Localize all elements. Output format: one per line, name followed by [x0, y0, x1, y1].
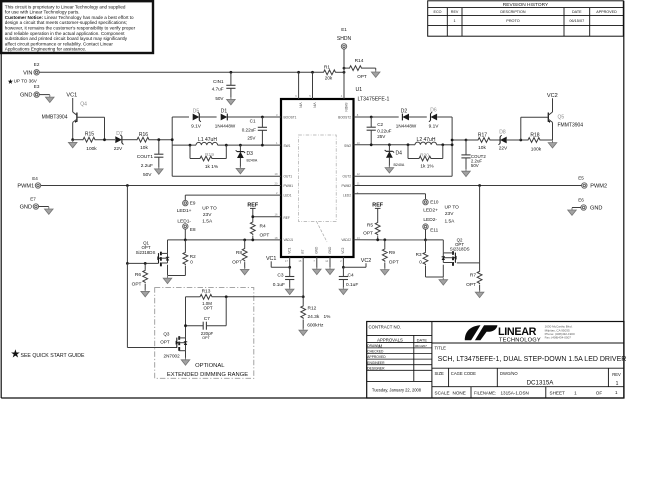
svg-text:R12: R12 [308, 306, 317, 312]
svg-text:D1: D1 [221, 108, 228, 114]
svg-text:06/14/07: 06/14/07 [415, 344, 427, 348]
svg-text:R17: R17 [478, 132, 487, 138]
svg-text:OPT: OPT [203, 306, 212, 311]
svg-text:23V: 23V [203, 212, 212, 218]
svg-text:SEE QUICK START GUIDE: SEE QUICK START GUIDE [21, 353, 86, 359]
svg-text:Q5: Q5 [558, 115, 565, 121]
svg-text:SCALE: SCALE [435, 391, 450, 396]
svg-text:C2: C2 [377, 122, 383, 127]
svg-text:REV: REV [451, 10, 459, 14]
svg-text:OPTIONAL: OPTIONAL [195, 363, 225, 369]
svg-text:1k 1%: 1k 1% [205, 164, 219, 170]
svg-text:E10: E10 [430, 200, 439, 205]
svg-text:GND: GND [315, 246, 319, 254]
svg-text:E7: E7 [30, 196, 36, 201]
svg-text:LED1+: LED1+ [177, 208, 192, 214]
svg-text:E4: E4 [32, 176, 38, 181]
svg-text:ENGINEER: ENGINEER [367, 361, 385, 365]
svg-text:CONTRACT NO.: CONTRACT NO. [369, 324, 402, 329]
svg-text:UP TO 36V: UP TO 36V [14, 78, 38, 83]
svg-text:VC1: VC1 [288, 247, 292, 253]
svg-text:R15: R15 [85, 131, 94, 137]
svg-text:C4: C4 [348, 272, 354, 278]
svg-text:UP TO: UP TO [445, 204, 460, 210]
svg-text:PROTO: PROTO [506, 19, 519, 23]
svg-text:PWM2: PWM2 [590, 184, 607, 190]
svg-text:Customer Notice: Linear Techno: Customer Notice: Linear Technology has m… [5, 15, 134, 20]
svg-text:PWM1: PWM1 [284, 184, 294, 188]
svg-text:LED1: LED1 [284, 193, 292, 197]
svg-text:affect circuit performance or: affect circuit performance or reliabilit… [5, 41, 114, 46]
svg-text:substitution and printed circu: substitution and printed circuit board l… [5, 36, 128, 41]
svg-text:GND: GND [590, 206, 602, 212]
svg-text:OPT: OPT [363, 231, 373, 237]
svg-text:22V: 22V [114, 146, 123, 152]
svg-text:0: 0 [190, 260, 193, 265]
svg-text:LED2+: LED2+ [423, 208, 438, 214]
svg-text:R14: R14 [355, 58, 364, 64]
svg-text:2.2uF: 2.2uF [141, 163, 153, 169]
svg-text:APPROVED: APPROVED [367, 355, 386, 359]
svg-text:OPT: OPT [232, 259, 242, 265]
svg-text:R6: R6 [135, 272, 141, 278]
svg-text:REV: REV [612, 372, 621, 377]
svg-text:GND: GND [20, 205, 32, 211]
svg-text:B240A: B240A [247, 159, 258, 163]
svg-text:D8: D8 [499, 130, 506, 136]
svg-text:APPROVED: APPROVED [596, 10, 617, 14]
svg-text:50V: 50V [215, 96, 224, 101]
svg-text:E5: E5 [578, 176, 584, 181]
svg-text:R8: R8 [236, 250, 242, 256]
svg-text:E1: E1 [341, 27, 347, 32]
svg-text:VC2: VC2 [547, 93, 558, 99]
svg-text:ECO: ECO [434, 10, 442, 14]
svg-text:OF: OF [596, 391, 603, 396]
svg-text:OPT: OPT [202, 336, 210, 340]
svg-text:NONE: NONE [453, 391, 466, 396]
svg-text:D6: D6 [430, 107, 437, 113]
svg-text:E3: E3 [34, 84, 40, 89]
svg-text:22V: 22V [499, 145, 508, 151]
svg-text:L1 47uH: L1 47uH [198, 137, 217, 143]
svg-text:1315A-1.DSN: 1315A-1.DSN [501, 391, 529, 396]
svg-text:E9: E9 [190, 201, 196, 206]
svg-text:design a circuit that meets cu: design a circuit that meets customer-sup… [5, 20, 127, 25]
svg-text:FILENAME:: FILENAME: [474, 391, 496, 396]
svg-text:U1: U1 [356, 87, 363, 93]
svg-text:L2 47uH: L2 47uH [417, 137, 436, 143]
svg-text:VADJ1: VADJ1 [284, 238, 294, 242]
svg-text:VC1: VC1 [66, 93, 77, 99]
svg-text:VIN: VIN [23, 70, 32, 76]
svg-text:0: 0 [419, 259, 422, 264]
svg-text:20k: 20k [325, 76, 333, 81]
svg-text:23V: 23V [445, 211, 454, 217]
svg-text:R16: R16 [139, 132, 148, 138]
svg-text:1: 1 [454, 19, 456, 23]
svg-text:14: 14 [325, 259, 328, 263]
svg-text:9.1V: 9.1V [429, 123, 440, 129]
svg-text:PWM1: PWM1 [17, 184, 34, 190]
svg-text:E6: E6 [578, 197, 584, 202]
svg-text:10: 10 [357, 141, 360, 145]
svg-text:SIZE: SIZE [435, 371, 445, 376]
svg-text:B240A: B240A [394, 163, 405, 167]
svg-text:9.1V: 9.1V [191, 123, 202, 129]
svg-text:This circuit is proprietary to: This circuit is proprietary to Linear Te… [5, 4, 126, 9]
svg-text:D4: D4 [396, 151, 403, 157]
svg-text:1.5A: 1.5A [202, 218, 213, 224]
svg-text:Q4: Q4 [80, 101, 87, 107]
svg-text:4.7uF: 4.7uF [212, 86, 224, 91]
svg-text:SHDN: SHDN [337, 36, 352, 42]
svg-text:E2: E2 [34, 62, 40, 67]
svg-text:DESIGNER: DESIGNER [367, 366, 385, 370]
svg-text:DATE: DATE [572, 10, 582, 14]
svg-text:Si2318DS: Si2318DS [136, 250, 156, 255]
svg-text:SW1: SW1 [284, 144, 291, 148]
svg-text:2N7002: 2N7002 [164, 353, 181, 358]
svg-text:20: 20 [275, 181, 278, 185]
svg-text:C1: C1 [250, 118, 256, 123]
svg-text:Si2318DS: Si2318DS [450, 247, 470, 252]
svg-text:100k: 100k [531, 146, 542, 152]
svg-text:VC1: VC1 [266, 256, 277, 262]
svg-text:VC2: VC2 [361, 258, 372, 264]
svg-text:C7: C7 [204, 316, 210, 322]
svg-text:1%: 1% [324, 314, 332, 320]
svg-text:Tuesday, January 22, 2008: Tuesday, January 22, 2008 [372, 387, 422, 392]
svg-text:Q3: Q3 [163, 331, 170, 336]
svg-text:LED2-: LED2- [423, 217, 437, 223]
svg-text:R4: R4 [260, 224, 266, 230]
svg-text:EXTENDED DIMMING RANGE: EXTENDED DIMMING RANGE [167, 372, 248, 378]
svg-text:E8: E8 [190, 227, 196, 232]
svg-text:for use with Linear Technology: for use with Linear Technology parts. [5, 10, 80, 15]
svg-text:D2: D2 [401, 108, 408, 114]
svg-text:1N4448W: 1N4448W [396, 123, 417, 128]
svg-text:UP TO: UP TO [202, 206, 217, 212]
svg-text:R5: R5 [367, 223, 373, 229]
svg-text:E11: E11 [430, 227, 438, 232]
svg-text:SW2: SW2 [344, 144, 351, 148]
svg-text:C3: C3 [277, 272, 283, 278]
svg-text:0.1uF: 0.1uF [273, 282, 285, 288]
svg-text:SHEET: SHEET [550, 391, 566, 396]
svg-text:VIN: VIN [298, 103, 302, 109]
svg-text:17: 17 [285, 259, 288, 263]
svg-text:24.3k: 24.3k [308, 314, 320, 320]
svg-text:R18: R18 [530, 132, 539, 138]
svg-text:15: 15 [298, 259, 301, 263]
svg-text:DATE: DATE [417, 337, 428, 342]
svg-text:and reliable operation in the: and reliable operation in the actual app… [5, 31, 125, 36]
svg-text:OPT: OPT [132, 282, 142, 288]
svg-text:OPT: OPT [357, 74, 367, 79]
svg-text:REVISION HISTORY: REVISION HISTORY [503, 2, 549, 8]
svg-text:OPT: OPT [160, 339, 170, 344]
svg-text:D3: D3 [247, 151, 254, 157]
svg-text:CHECKED: CHECKED [367, 350, 384, 354]
svg-text:1N4448W: 1N4448W [215, 123, 236, 128]
svg-text:11: 11 [357, 181, 360, 185]
svg-text:25V: 25V [247, 136, 256, 141]
svg-text:OUT2: OUT2 [342, 175, 351, 179]
svg-text:1k 1%: 1k 1% [420, 164, 434, 170]
svg-text:25V: 25V [377, 134, 386, 139]
svg-text:R2: R2 [190, 254, 196, 259]
svg-text:M: M [379, 343, 383, 348]
svg-text:Fax: (408)434-0507: Fax: (408)434-0507 [545, 336, 572, 340]
svg-text:CAGE CODE: CAGE CODE [451, 371, 476, 376]
svg-text:DC1315A: DC1315A [527, 380, 555, 387]
svg-text:VADJ2: VADJ2 [341, 238, 351, 242]
svg-text:OPT: OPT [466, 282, 476, 288]
svg-text:DWG/NO: DWG/NO [500, 371, 518, 376]
svg-text:D5: D5 [193, 108, 200, 114]
svg-text:18: 18 [275, 236, 278, 240]
svg-text:0.1uF: 0.1uF [346, 282, 358, 288]
svg-text:R9: R9 [389, 250, 395, 256]
svg-text:however, it remains the custom: however, it remains the customer's respo… [5, 26, 136, 31]
svg-text:12: 12 [357, 172, 360, 176]
svg-text:VIN: VIN [312, 103, 316, 109]
svg-text:R13: R13 [202, 289, 211, 295]
svg-text:06/15/07: 06/15/07 [569, 19, 584, 23]
svg-text:0.22uF: 0.22uF [242, 128, 256, 133]
svg-text:100k: 100k [86, 146, 97, 152]
svg-text:50V: 50V [143, 172, 152, 178]
svg-text:GND: GND [328, 246, 332, 254]
svg-text:13: 13 [357, 236, 360, 240]
svg-text:10k: 10k [478, 145, 486, 151]
svg-text:VC2: VC2 [341, 247, 345, 253]
svg-text:LINEAR: LINEAR [498, 326, 537, 338]
svg-text:R7: R7 [470, 273, 476, 279]
svg-text:BOOST2: BOOST2 [338, 115, 351, 119]
svg-text:1: 1 [616, 381, 619, 387]
svg-text:APPROVALS: APPROVALS [377, 337, 403, 342]
svg-text:FMMT3904: FMMT3904 [558, 123, 584, 129]
svg-text:OPT: OPT [260, 232, 270, 238]
svg-text:REF: REF [247, 203, 258, 209]
svg-text:LED2: LED2 [343, 193, 351, 197]
svg-text:19: 19 [275, 172, 278, 176]
svg-text:1: 1 [615, 390, 618, 395]
svg-text:TITLE: TITLE [435, 346, 447, 351]
svg-text:REF: REF [284, 216, 290, 220]
svg-text:REF: REF [372, 203, 383, 209]
svg-text:R20: R20 [420, 152, 429, 158]
svg-text:OPT: OPT [389, 259, 399, 265]
svg-text:R1: R1 [324, 64, 330, 70]
svg-text:OUT1: OUT1 [284, 175, 293, 179]
svg-text:D7: D7 [116, 131, 123, 137]
svg-text:RT: RT [301, 250, 305, 254]
svg-text:R3: R3 [416, 252, 422, 257]
svg-text:PWM2: PWM2 [341, 184, 351, 188]
svg-text:1: 1 [574, 391, 577, 396]
svg-text:GND: GND [20, 93, 32, 99]
svg-text:16: 16 [275, 213, 278, 217]
svg-text:LT3475EFE-1: LT3475EFE-1 [358, 96, 390, 102]
svg-text:0.22uF: 0.22uF [377, 128, 391, 133]
svg-text:SHDN: SHDN [344, 103, 348, 113]
svg-text:BOOST1: BOOST1 [284, 115, 297, 119]
svg-text:DESCRIPTION: DESCRIPTION [500, 10, 526, 14]
svg-text:TECHNOLOGY: TECHNOLOGY [499, 338, 541, 344]
svg-text:CIN1: CIN1 [213, 79, 224, 84]
svg-text:Applications Engineering for a: Applications Engineering for assistance. [5, 47, 86, 52]
svg-text:10k: 10k [140, 145, 148, 151]
svg-text:R19: R19 [205, 152, 214, 158]
svg-text:MMBT3904: MMBT3904 [42, 114, 68, 120]
svg-text:SCH, LT3475EFE-1, DUAL STEP-DO: SCH, LT3475EFE-1, DUAL STEP-DOWN 1.5A LE… [438, 356, 627, 363]
svg-text:COUT1: COUT1 [137, 154, 154, 160]
svg-text:50V: 50V [471, 163, 479, 168]
svg-text:600kHz: 600kHz [307, 322, 324, 328]
svg-text:1.5A: 1.5A [445, 218, 456, 224]
